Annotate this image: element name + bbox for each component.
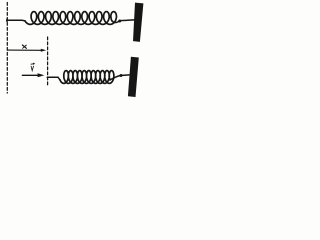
- bottom connector dot: [120, 74, 123, 77]
- compressed spring (bottom): [60, 71, 114, 84]
- bottom attachment rod from dashed line to compressed spring: [47, 77, 60, 80]
- arrowhead of velocity arrow: [38, 73, 45, 77]
- arrowhead of x measurement arrow: [41, 49, 47, 52]
- junction tick at top rod left end: [6, 19, 8, 21]
- bottom spring end hook to connector dot: [110, 76, 120, 80]
- wall (top, fixed support): [133, 3, 143, 42]
- top attachment rod from dashed line to spring: [7, 19, 25, 22]
- equilibrium dashed reference line (left): [6, 3, 8, 94]
- top connector dot: [118, 20, 121, 23]
- bottom connector rod to wall: [122, 74, 129, 77]
- displaced dashed reference line (right): [47, 37, 49, 85]
- background: [0, 0, 150, 104]
- label vector v over block: [31, 63, 34, 71]
- label x (displacement): [22, 45, 26, 48]
- measurement arrow shaft for x: [8, 49, 42, 51]
- wall (bottom, fixed support): [128, 57, 139, 97]
- relaxed spring (top): [25, 12, 117, 25]
- top connector rod to wall: [121, 19, 135, 22]
- bottom velocity arrow shaft: [22, 74, 39, 76]
- top spring end hook to connector dot: [112, 21, 120, 23]
